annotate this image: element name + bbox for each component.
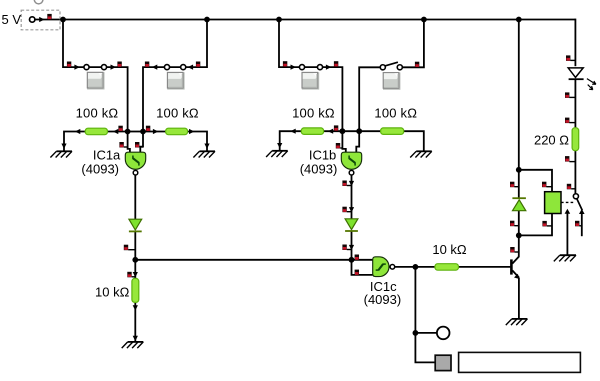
wire R3 left to ground G3 bbox=[280, 131, 302, 150]
svg-text:100 kΩ: 100 kΩ bbox=[292, 105, 335, 120]
pin coil bottom bbox=[542, 221, 552, 227]
R2 current arrows bbox=[153, 129, 195, 134]
pin coil top bbox=[542, 182, 552, 188]
pin D3 anode bbox=[510, 221, 519, 227]
diode D2 bbox=[345, 219, 358, 231]
node F junction bbox=[132, 257, 138, 263]
pin R2 left bbox=[146, 126, 150, 132]
wire switch4 right feed from rail bbox=[402, 20, 424, 68]
svg-text:10 kΩ: 10 kΩ bbox=[95, 285, 130, 300]
wire LED bottom to resistor R7 bbox=[574, 79, 576, 128]
svg-text:(4093): (4093) bbox=[364, 292, 402, 307]
IC1b out current arrow bbox=[349, 181, 354, 186]
push switch SW4 contacts (open) bbox=[380, 65, 402, 70]
junction rail-switch3 bbox=[276, 17, 282, 23]
relay common contact circle bbox=[573, 194, 578, 199]
wire D1 cathode to node F bbox=[134, 231, 136, 259]
selection dashed box around 5V terminal bbox=[21, 10, 60, 30]
pin LED top bbox=[566, 55, 575, 61]
node H junction bbox=[413, 264, 419, 270]
relay right throw arrow bbox=[579, 209, 585, 214]
wire R3 right to node D bbox=[324, 130, 343, 132]
wire switch2 feed from rail bbox=[143, 20, 207, 132]
wire node E to R4 left bbox=[359, 130, 380, 132]
pin relay common bbox=[567, 184, 576, 190]
wire node B to node C bbox=[128, 131, 143, 133]
resistor R6 10k vertical bbox=[132, 278, 139, 302]
pin R7 top bbox=[565, 118, 575, 124]
wire rail corner down to LED branch bbox=[574, 19, 576, 67]
SW4 open lever bbox=[385, 62, 398, 66]
resistor R2 100k bbox=[166, 128, 188, 135]
buzzer grey box bbox=[435, 355, 451, 370]
junction rail-relay branch bbox=[516, 17, 522, 23]
relay actuator dashed link bbox=[561, 201, 574, 203]
node D junction bbox=[340, 128, 346, 134]
wire node J to probe bbox=[415, 332, 436, 334]
G1 current arrow bbox=[61, 144, 66, 149]
node L junction bbox=[516, 233, 522, 239]
resistor R1 100k bbox=[85, 128, 107, 135]
junction rail-switch2 bbox=[204, 17, 210, 23]
node J junction bbox=[413, 330, 419, 336]
relay RL1 coil bbox=[545, 192, 561, 214]
pin R1 right bbox=[118, 126, 122, 132]
IC1a output bubble bbox=[133, 170, 138, 175]
ground G1 bbox=[50, 151, 72, 157]
IC1b output bubble bbox=[349, 170, 354, 175]
wire node L down to transistor collector bbox=[518, 235, 520, 256]
push switch SW2 contacts bbox=[164, 65, 185, 70]
wire relay coil bottom to node L bbox=[519, 214, 552, 236]
SW3 push button bbox=[302, 72, 319, 89]
node A junction bbox=[60, 17, 66, 23]
R6 top current arrow bbox=[133, 272, 138, 277]
5V supply current arrow bbox=[39, 17, 44, 22]
SW1 push button bbox=[87, 72, 104, 89]
resistor R7 220 vertical bbox=[572, 128, 579, 151]
ground G7 bbox=[554, 255, 576, 261]
wire switch3 feed from rail bbox=[279, 20, 342, 132]
wire R4 right to ground G4 bbox=[404, 131, 424, 151]
IC1c output bubble bbox=[390, 265, 395, 270]
wire node G to IC1c input A bbox=[352, 259, 373, 261]
pin D1 cathode bbox=[124, 245, 136, 251]
svg-text:(4093): (4093) bbox=[81, 162, 119, 177]
pin IC1a input B bbox=[135, 142, 143, 148]
LED light arrows bbox=[587, 79, 596, 90]
node C junction bbox=[140, 129, 146, 135]
wire R7 bottom to relay common bbox=[574, 151, 576, 194]
IC1b schmitt glyph bbox=[349, 156, 355, 166]
diode D3 flyback bbox=[512, 198, 526, 211]
ground G5 bbox=[506, 319, 528, 325]
wire node F down to R6 bbox=[134, 260, 136, 279]
wire node F to node G horizontal bbox=[135, 259, 351, 261]
wire IC1c output to node H and R5 bbox=[395, 266, 435, 268]
resistor R3 100k bbox=[301, 128, 323, 134]
wire R6 bottom to ground G6 bbox=[134, 302, 136, 341]
pin R3 right bbox=[334, 125, 338, 130]
wire D2 cathode to node G bbox=[351, 231, 353, 260]
wire switch1 feed from node A bbox=[63, 20, 128, 132]
wire IC1a input A jog bbox=[128, 132, 130, 153]
R3 current arrows bbox=[290, 129, 333, 134]
wire R5 to transistor base bbox=[459, 266, 511, 268]
ground G6 bbox=[122, 342, 144, 348]
node K junction bbox=[516, 167, 522, 173]
IC1a schmitt glyph bbox=[133, 156, 139, 166]
wire relay right throw open end bbox=[581, 213, 583, 237]
5V supply pin bbox=[47, 14, 51, 20]
G3 current arrow bbox=[277, 143, 282, 148]
LED D4 bbox=[568, 68, 583, 79]
svg-text:5 V: 5 V bbox=[2, 12, 22, 27]
wire node H down to node J bbox=[414, 267, 416, 333]
relay lever bbox=[577, 199, 583, 211]
wire IC1b input B jog bbox=[356, 131, 359, 152]
pin IC1c input A bbox=[355, 255, 359, 261]
probe indicator circle bbox=[437, 327, 450, 340]
svg-text:IC1b: IC1b bbox=[309, 147, 336, 162]
node E junction bbox=[356, 128, 362, 134]
pin D3 cathode bbox=[510, 182, 519, 188]
pin D2 top bbox=[342, 207, 351, 213]
resistor R5 10k bbox=[435, 264, 459, 271]
R6 bottom current arrow bbox=[133, 305, 138, 310]
wire node G loop to IC1c input B bbox=[352, 260, 373, 275]
Q1 emitter arrow bbox=[514, 274, 520, 279]
wire R1 right to node B bbox=[108, 131, 128, 133]
wire node D to node E bbox=[342, 130, 359, 132]
wire node K down to diode D3 cathode bbox=[518, 170, 520, 199]
wire node C to R2 left bbox=[143, 131, 166, 133]
wire node J down to buzzer box bbox=[415, 333, 435, 363]
wire node K to relay coil top bbox=[519, 170, 552, 192]
text readout white box bbox=[459, 352, 581, 372]
G2 current arrow bbox=[204, 144, 209, 149]
pin LED bottom bbox=[565, 92, 575, 98]
D2 top current arrow bbox=[349, 207, 354, 212]
pin R7 bottom bbox=[565, 156, 575, 162]
resistor R4 100k bbox=[381, 128, 404, 134]
SW2 push button bbox=[167, 72, 184, 89]
transistor Q1 bbox=[511, 256, 519, 277]
push switch SW1 contacts bbox=[84, 65, 107, 70]
pin relay right throw bbox=[575, 221, 582, 227]
op-amp-style NAND gate IC1a body bbox=[125, 152, 145, 169]
NAND gate IC1b body bbox=[341, 152, 361, 169]
SW3 pins bbox=[283, 61, 338, 66]
SW2 current arrows bbox=[152, 65, 193, 70]
SW1 pins bbox=[67, 62, 122, 68]
ground G4 bbox=[410, 151, 432, 157]
wire R2 right to ground G2 bbox=[188, 132, 207, 151]
wire IC1b input A jog bbox=[342, 131, 345, 152]
svg-text:10 kΩ: 10 kΩ bbox=[432, 242, 467, 257]
NAND gate IC1c body bbox=[373, 257, 389, 277]
pin D2 anode (IC1b out) bbox=[342, 181, 351, 187]
node B junction bbox=[125, 129, 131, 135]
partial grey circle cut at top edge bbox=[34, 0, 43, 4]
wire IC1a input B jog bbox=[140, 132, 143, 153]
junction rail-switch4 bbox=[421, 17, 427, 23]
pin IC1b input A bbox=[336, 143, 343, 149]
svg-text:IC1a: IC1a bbox=[93, 147, 121, 162]
SW4 pin bbox=[415, 62, 419, 67]
SW4 push button bbox=[383, 73, 400, 90]
R1 current arrows bbox=[75, 129, 118, 134]
SW3 current arrows bbox=[291, 65, 332, 70]
svg-text:100 kΩ: 100 kΩ bbox=[76, 105, 119, 120]
ground G2 bbox=[193, 151, 215, 157]
ground G3 bbox=[266, 151, 288, 157]
wire top 5V rail bbox=[35, 19, 576, 21]
G6 current arrow bbox=[133, 336, 138, 341]
wire transistor emitter to ground G5 bbox=[518, 278, 520, 319]
svg-text:100 kΩ: 100 kΩ bbox=[156, 105, 199, 120]
wire IC1a output down to diode D1 bbox=[134, 175, 136, 219]
SW2 pins bbox=[145, 62, 200, 68]
D2 cathode current arrow bbox=[349, 245, 354, 250]
5V supply terminal circle bbox=[30, 17, 35, 22]
wire rail down to node K bbox=[518, 20, 520, 170]
wire switch4 left leg down to IC1b input node bbox=[359, 67, 380, 131]
wire R1 left to ground G1 bbox=[64, 132, 85, 151]
svg-text:220 Ω: 220 Ω bbox=[534, 133, 569, 148]
pin Q1 collector bbox=[510, 247, 519, 253]
pin IC1a input A bbox=[119, 142, 127, 148]
pin IC1c input B bbox=[355, 270, 359, 276]
node G junction bbox=[349, 257, 355, 263]
svg-text:100 kΩ: 100 kΩ bbox=[374, 105, 417, 120]
wire relay left throw to ground G7 bbox=[566, 213, 568, 255]
pin D2 cathode bbox=[342, 245, 351, 251]
SW1 current arrows bbox=[74, 65, 116, 70]
svg-text:(4093): (4093) bbox=[300, 162, 338, 177]
relay left throw arrow bbox=[565, 209, 571, 214]
IC1c schmitt glyph bbox=[376, 264, 386, 270]
wire IC1b output down to diode D2 bbox=[351, 175, 353, 219]
pin R6 top bbox=[127, 272, 135, 278]
push switch SW3 contacts bbox=[299, 65, 322, 70]
diode D1 bbox=[129, 219, 142, 231]
wire D3 anode down to node L bbox=[518, 211, 520, 236]
